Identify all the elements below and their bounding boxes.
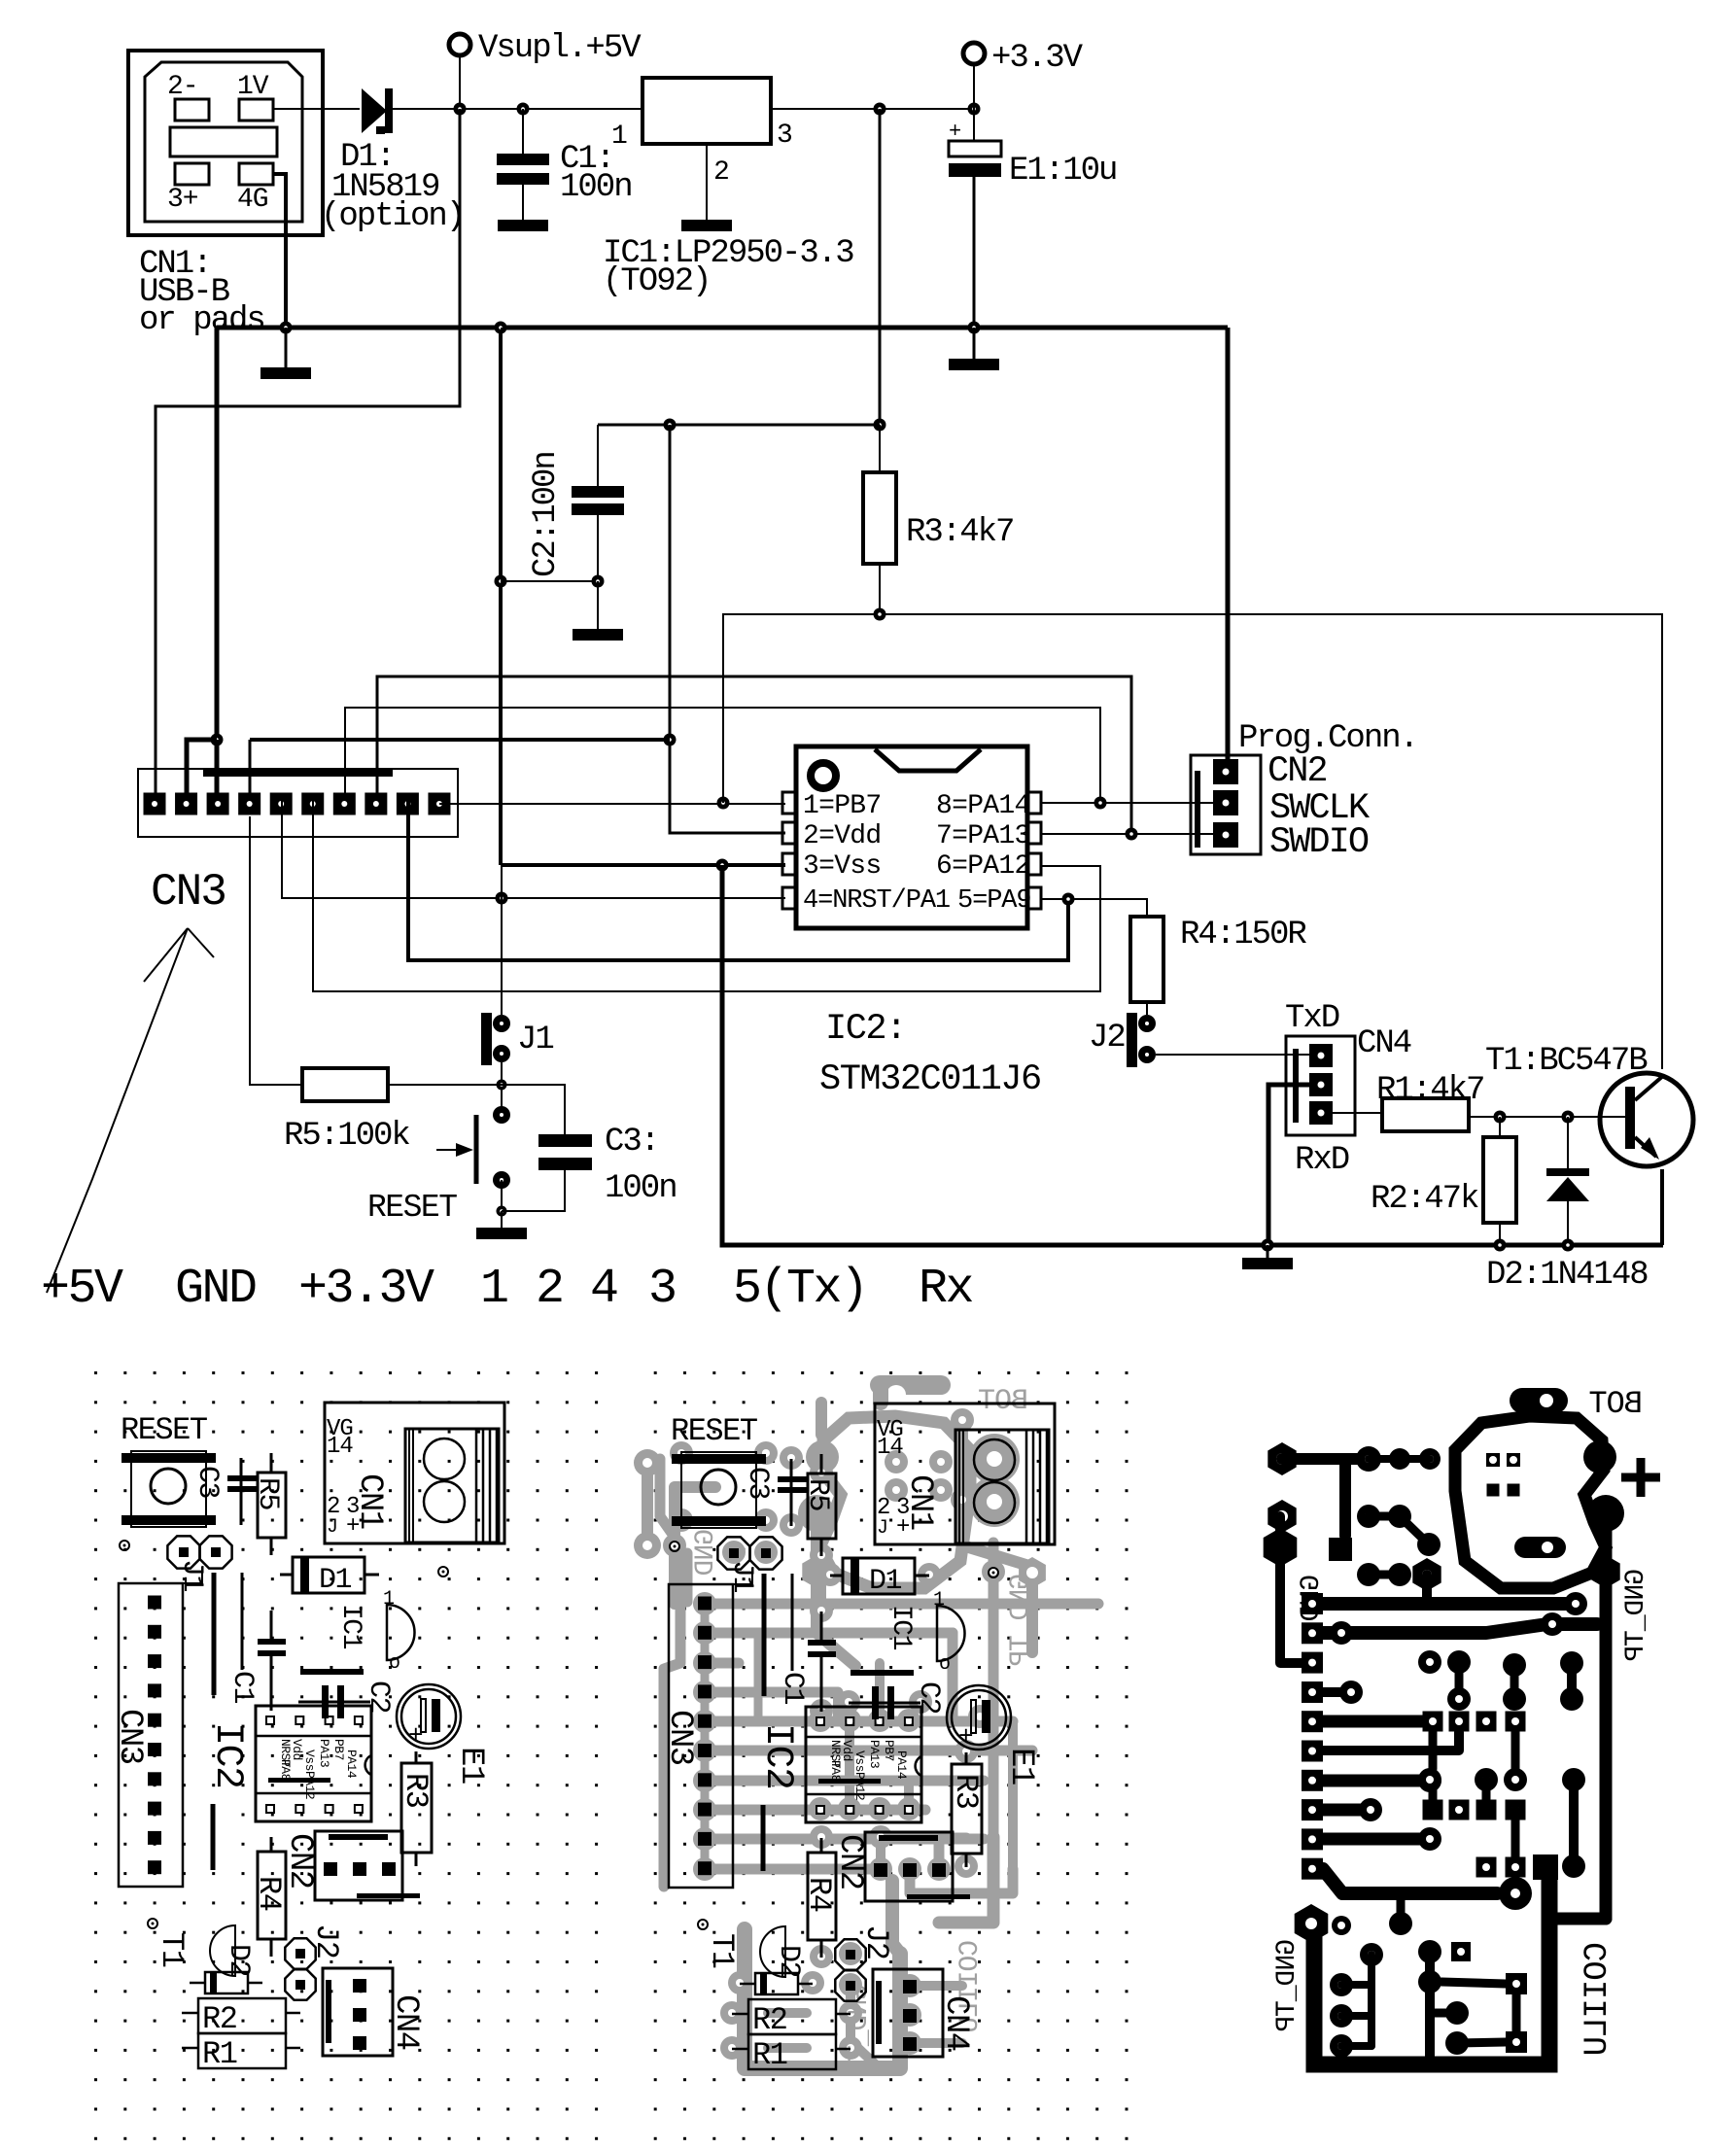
wire CN4 GND to bottom rail (1268, 1085, 1309, 1245)
PCB pushbutton RESET S1 (122, 1451, 216, 1527)
PCB wire links (212, 1573, 217, 1695)
wire +3.3V down x905 (879, 109, 882, 425)
PCB resistor R3 (401, 1751, 432, 1866)
svg-text:IC2:: IC2: (825, 1009, 906, 1050)
PCB resistor R4 (258, 1837, 286, 1957)
svg-text:R4:150R: R4:150R (1180, 917, 1306, 953)
PCB via right (438, 1567, 448, 1577)
PCB diode D2 (190, 1972, 262, 1993)
node +3.3V terminal (963, 43, 985, 64)
connector CN2 Prog.Conn. (1191, 755, 1261, 854)
wire IC1 out +3.3V rail (771, 108, 974, 110)
copper CN1 loop (1455, 1416, 1606, 1588)
wire D1 to IC1 (+5V) (393, 108, 642, 110)
svg-text:5=PA9: 5=PA9 (957, 886, 1031, 916)
wire CN3 pin7 up to SWCLK (345, 708, 1100, 803)
svg-text:COIILU: COIILU (1580, 1942, 1616, 2055)
resistor R2 47k (1499, 1117, 1501, 1137)
copper bottom mid cluster (1418, 1940, 1441, 1963)
svg-text:CN4: CN4 (1357, 1025, 1411, 1062)
capacitor C3 100n (502, 1085, 592, 1211)
PCB resistor R5 (258, 1453, 286, 1555)
copper top-left cluster (1267, 1442, 1296, 1475)
svg-text:5(Tx): 5(Tx) (733, 1262, 867, 1317)
copper bottom left cluster (1360, 1943, 1383, 1966)
ground under C1 (498, 220, 548, 231)
grid dots panel A (89, 1365, 602, 2142)
svg-text:SWDIO: SWDIO (1269, 822, 1369, 863)
svg-text:TxD: TxD (1285, 1000, 1339, 1037)
transistor T1 BC547B (1600, 1073, 1693, 1245)
svg-text:GND_TP: GND_TP (1006, 1574, 1036, 1666)
copper IC2 pads (1423, 1712, 1443, 1732)
wire +3.3V to CN3 pin4 (250, 738, 670, 742)
svg-text:7=PA13: 7=PA13 (936, 821, 1030, 851)
jumper J1 (481, 1013, 510, 1065)
connector CN3 (138, 769, 458, 837)
ground symbol near CN4 (1267, 1245, 1269, 1258)
svg-text:STM32C011J6: STM32C011J6 (819, 1059, 1041, 1100)
wire +5V down to CN3 pin1 (156, 109, 460, 793)
svg-text:R5:100k: R5:100k (284, 1118, 409, 1155)
wire Vss GND down to bottom GND rail (722, 865, 1663, 1245)
copper right pads column (1562, 1768, 1585, 1791)
PCB connector CN4 (323, 1968, 393, 2056)
svg-text:4=NRST/PA1: 4=NRST/PA1 (803, 886, 950, 916)
svg-text:4: 4 (590, 1262, 617, 1317)
copper blobs (1583, 1440, 1616, 1473)
wire CN3 pin6 to PA12 line (313, 793, 1100, 991)
svg-text:100n: 100n (560, 169, 632, 206)
svg-text:1: 1 (480, 1262, 507, 1317)
wire GND to IC2 Vss (501, 863, 785, 867)
svg-text:2=Vdd: 2=Vdd (803, 821, 882, 851)
PCB capacitor C2 (298, 1685, 370, 1718)
wire USB pin1 to D1 (273, 108, 360, 110)
wire GND bus down to CN2 pin1 (1226, 328, 1231, 759)
resistor R5 100k (250, 816, 302, 1085)
PCB copper-only (BOT) view (1264, 1386, 1660, 2064)
jumper J2 (1127, 1013, 1156, 1067)
resistor R1 4k7 (1382, 1098, 1469, 1131)
wire Rx net from PB7 to R3 and T1 collector (723, 614, 1662, 1069)
svg-text:R2:47k: R2:47k (1371, 1181, 1478, 1218)
svg-text:+5V: +5V (41, 1262, 123, 1317)
svg-text:BOT: BOT (1589, 1386, 1643, 1422)
resistor R3 4k7 (879, 425, 881, 472)
wire CN3 pin10 to PB7 (439, 803, 785, 805)
copper BOT slot pad (1510, 1388, 1568, 1413)
PCB capacitor E1 (397, 1684, 461, 1750)
regulator IC1 LP2950-3.3 (642, 78, 771, 144)
wire GND bus left drop to CN3 pins 2,3 (215, 328, 220, 740)
PCB IC2 (256, 1706, 371, 1821)
svg-text:GND_TP: GND_TP (1272, 1939, 1302, 2031)
svg-text:(TO92): (TO92) (603, 263, 710, 300)
IC U2 STM32C011J6 (782, 746, 1041, 928)
svg-text:4G: 4G (237, 185, 268, 215)
arrow pointing to CN3 (47, 928, 214, 1293)
copper mid pads (1357, 1505, 1380, 1528)
svg-text:2-: 2- (167, 72, 198, 102)
PCB jumper J1 pads (167, 1536, 231, 1568)
wire GND x515 vertical (499, 328, 503, 865)
PCB transistor T1 (210, 1925, 235, 1976)
svg-text:3: 3 (648, 1262, 676, 1317)
diode D1 1N5819 (362, 88, 393, 134)
wire CN4 RxD to R1 (1333, 1112, 1382, 1114)
PCB IC1 TO92 (383, 1588, 415, 1675)
wire GND down through J1 (501, 328, 503, 1015)
PCB via (120, 1541, 129, 1550)
resistor R4 150R (1130, 917, 1163, 1002)
PCB connector CN2 (315, 1831, 420, 1900)
wire CN3 pin9 to PA9/Tx (408, 793, 1068, 960)
copper right trunk (1600, 1513, 1613, 1919)
wire PA9 to R4 (1040, 899, 1147, 917)
ground symbol under E1 (973, 328, 976, 359)
wire J1 to RESET node (501, 1062, 503, 1115)
PCB connector CN3 (119, 1583, 183, 1887)
PCB resistor R1 (182, 2033, 300, 2068)
wire CN3 pin5 to NRST line (282, 793, 785, 898)
PCB connector CN1 (325, 1403, 504, 1543)
svg-text:3: 3 (777, 121, 792, 151)
svg-text:3+: 3+ (167, 185, 198, 215)
ground symbol under C2 (597, 581, 599, 629)
svg-text:2: 2 (536, 1262, 563, 1317)
svg-text:2: 2 (713, 157, 729, 188)
grid dots panel B (640, 1365, 1152, 2142)
svg-text:6=PA12: 6=PA12 (936, 851, 1030, 882)
ground under RESET (501, 1211, 503, 1228)
PCB resistor R2 (182, 1998, 300, 2033)
copper big U trace (1533, 1854, 1558, 1880)
PCB combined view: component placement reuse (661, 1404, 1055, 2073)
copper CN3 pad column (1302, 1593, 1323, 1614)
svg-text:8=PA14: 8=PA14 (936, 791, 1030, 821)
PCB capacitor C1 (258, 1611, 286, 1711)
wire USB shell/4G to GND bus (273, 174, 286, 328)
wire SWCLK PA14 to CN2 (1040, 802, 1215, 804)
PCB jumper J2 pads (285, 1938, 315, 1999)
wire +3.3V horizontal y437 (598, 424, 880, 427)
svg-text:Prog.Conn.: Prog.Conn. (1238, 720, 1417, 757)
svg-text:1V: 1V (237, 72, 269, 102)
svg-text:1: 1 (611, 121, 627, 152)
PCB diode D1 (280, 1557, 379, 1593)
copper CN3 row traces (1323, 1597, 1565, 1611)
svg-text:1=PB7: 1=PB7 (803, 791, 882, 821)
svg-text:or pads: or pads (139, 302, 264, 339)
copper CN1 pads (1486, 1453, 1500, 1467)
wire J2 to CN4 TxD (1156, 1054, 1310, 1056)
copper plus mark (1621, 1473, 1660, 1482)
svg-text:C2:100n: C2:100n (528, 452, 565, 577)
svg-text:T1:BC547B: T1:BC547B (1485, 1043, 1648, 1080)
svg-text:(option): (option) (321, 198, 464, 235)
PCB combined view: gray copper traces (634, 1385, 1098, 2068)
wire GND bus horizontal (217, 326, 1228, 330)
svg-text:Rx: Rx (919, 1262, 973, 1317)
ground symbol under USB (285, 328, 288, 367)
capacitor E1 10u electrolytic (949, 109, 1001, 328)
capacitor C1 100n (497, 103, 549, 221)
wire C2 bottom to GND line (501, 580, 598, 582)
junction E1 to bus (968, 322, 981, 334)
svg-text:R3:4k7: R3:4k7 (906, 514, 1013, 551)
diode D2 1N4148 (1546, 1117, 1589, 1252)
svg-text:D2:1N4148: D2:1N4148 (1486, 1257, 1648, 1294)
svg-text:J2: J2 (1089, 1020, 1125, 1057)
svg-text:GND_TP: GND_TP (1621, 1569, 1651, 1661)
ground under IC1 (681, 220, 732, 231)
capacitor C2 100n (572, 425, 624, 581)
svg-text:+3.3V: +3.3V (298, 1262, 434, 1317)
svg-text:+3.3V: +3.3V (991, 40, 1084, 77)
svg-text:J1: J1 (517, 1022, 553, 1058)
svg-text:C3:: C3: (605, 1124, 658, 1161)
node Vsupl.+5V terminal (449, 34, 470, 55)
svg-text:CN3: CN3 (151, 867, 226, 918)
connector CN4 (1286, 1036, 1355, 1135)
connector CN1 USB-B (128, 51, 323, 235)
svg-text:E1:10u: E1:10u (1009, 153, 1116, 190)
svg-text:R1:4k7: R1:4k7 (1376, 1072, 1483, 1109)
pushbutton RESET (436, 1106, 510, 1217)
copper GND_TP pads left (1267, 1500, 1296, 1533)
svg-text:GND: GND (175, 1262, 256, 1317)
svg-text:RxD: RxD (1295, 1142, 1349, 1179)
svg-text:CN2: CN2 (1267, 751, 1327, 792)
wire R1 to T1 base (1469, 1116, 1625, 1118)
wire +3.3V down to IC2 Vdd (670, 425, 785, 833)
svg-text:Vsupl.+5V: Vsupl.+5V (478, 30, 642, 67)
PCB via near T1 (148, 1919, 157, 1928)
svg-text:3=Vss: 3=Vss (803, 851, 882, 882)
PCB capacitor C3 (227, 1458, 258, 1525)
svg-text:RESET: RESET (367, 1190, 457, 1226)
PCB layout: component placement view (111, 1403, 504, 2072)
wire SWDIO PA13 to CN2 (1040, 833, 1215, 835)
svg-text:BOT: BOT (979, 1385, 1028, 1418)
wire IC1 pin2 to ground (706, 144, 708, 220)
svg-text:100n: 100n (605, 1170, 677, 1207)
wire CN3 pin8 up to SWDIO (377, 676, 1131, 834)
